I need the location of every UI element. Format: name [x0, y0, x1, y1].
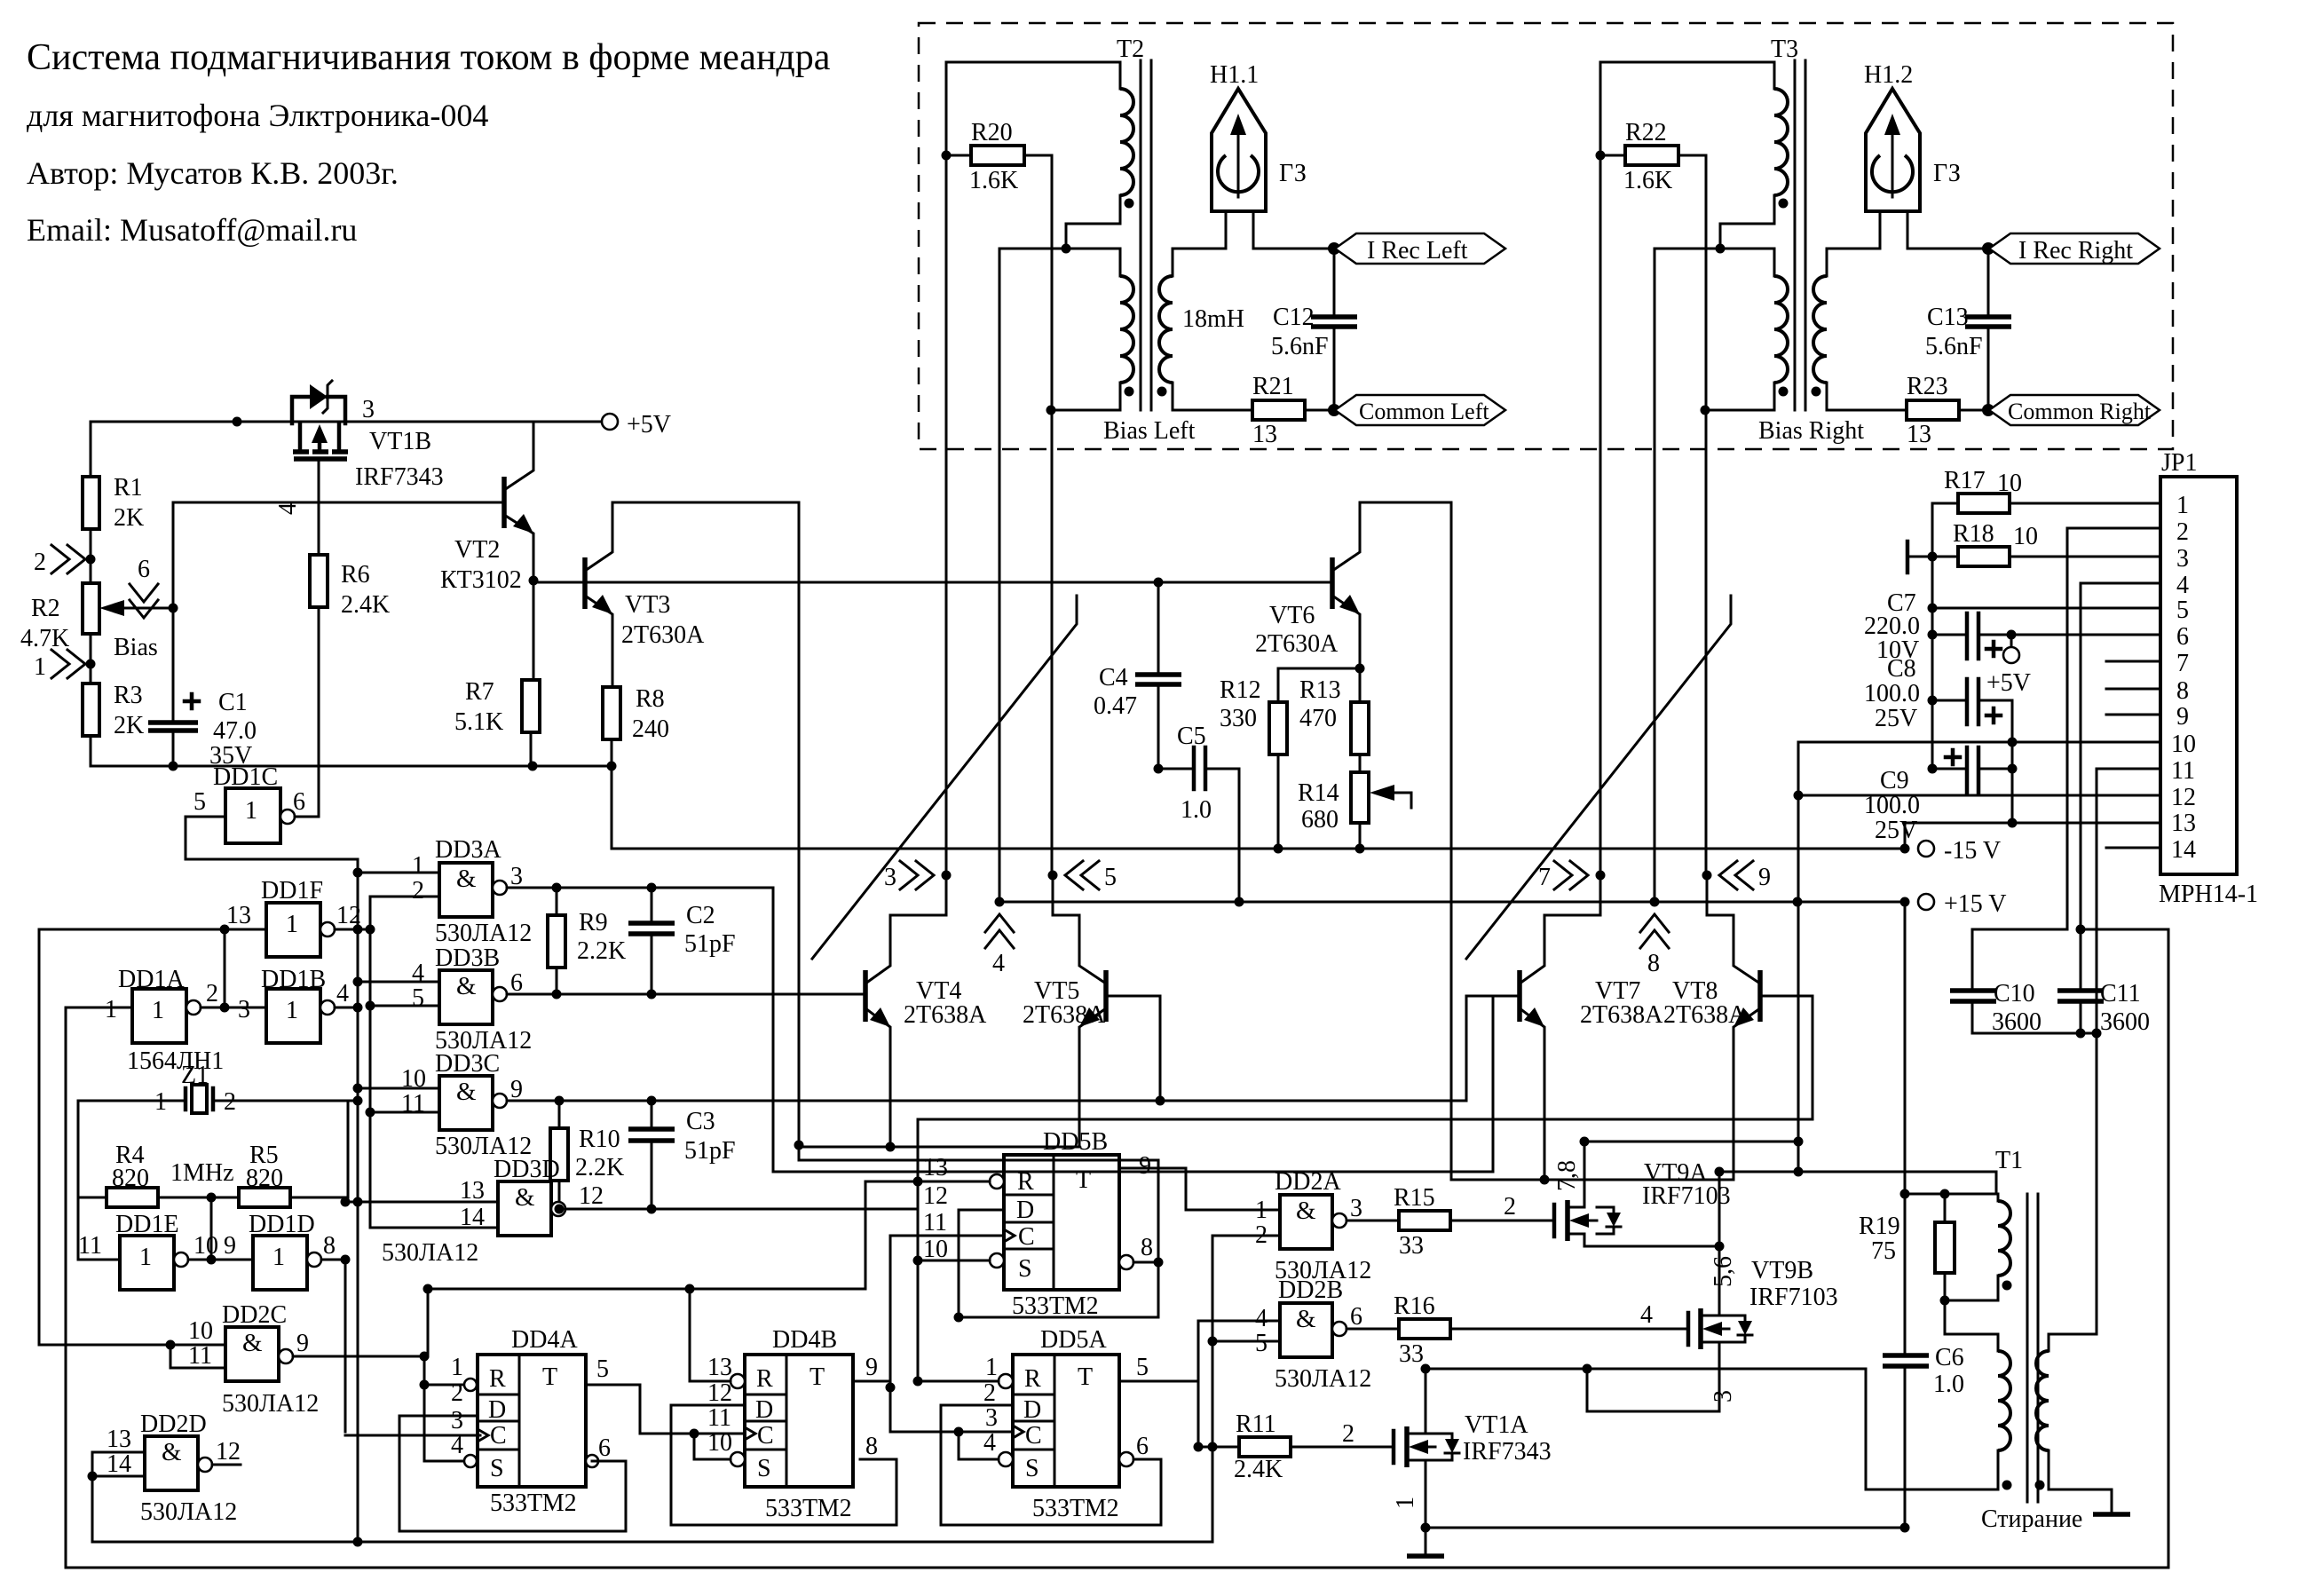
- wire DD4A R input: [424, 1356, 463, 1461]
- transformer T2: [946, 36, 1252, 415]
- capacitor C9 100.0/25V: [1932, 768, 1967, 770]
- svg-text:4: 4: [1255, 1305, 1268, 1332]
- svg-text:7: 7: [1538, 864, 1551, 891]
- svg-text:C12: C12: [1273, 304, 1315, 331]
- svg-text:R9: R9: [579, 909, 608, 936]
- svg-text:1MHz: 1MHz: [170, 1159, 234, 1187]
- svg-text:&: &: [162, 1438, 182, 1466]
- svg-text:1: 1: [412, 852, 424, 880]
- capacitor C12: [1333, 249, 1336, 317]
- flip-flop DD4A 533TM2: [451, 1326, 611, 1517]
- svg-text:IRF7103: IRF7103: [1642, 1182, 1731, 1210]
- svg-text:2.2K: 2.2K: [577, 937, 626, 965]
- svg-text:10: 10: [193, 1232, 218, 1260]
- capacitor C6: [1883, 1353, 1929, 1358]
- svg-text:47.0: 47.0: [213, 717, 257, 745]
- wire T2 drive columns: [945, 62, 948, 875]
- svg-text:DD2C: DD2C: [222, 1301, 287, 1329]
- svg-text:R8: R8: [636, 685, 665, 713]
- svg-text:13: 13: [2171, 810, 2196, 837]
- wire DD4B R input: [690, 1289, 731, 1381]
- svg-text:8: 8: [1647, 950, 1660, 977]
- svg-text:4: 4: [992, 950, 1005, 977]
- wire pin11 down: [2097, 769, 2160, 1334]
- svg-text:3: 3: [2176, 545, 2189, 573]
- svg-text:3: 3: [451, 1407, 463, 1434]
- svg-text:5: 5: [596, 1355, 609, 1383]
- svg-text:ГЗ: ГЗ: [1279, 160, 1307, 187]
- resistor R3: [83, 683, 99, 736]
- svg-text:530ЛА12: 530ЛА12: [435, 920, 532, 947]
- svg-text:25V: 25V: [1875, 817, 1917, 844]
- svg-text:530ЛА12: 530ЛА12: [382, 1239, 478, 1267]
- svg-text:4: 4: [336, 980, 349, 1007]
- svg-text:3: 3: [238, 996, 250, 1023]
- svg-text:S: S: [1025, 1455, 1039, 1482]
- wire DD3B output to VT4 base: [507, 993, 865, 996]
- resistor R10: [550, 1128, 568, 1181]
- head H1.2: [1864, 61, 1988, 249]
- svg-text:5.6nF: 5.6nF: [1271, 333, 1329, 360]
- svg-text:11: 11: [923, 1209, 947, 1237]
- wire DD5A C input: [890, 1431, 1013, 1434]
- svg-text:5: 5: [193, 788, 206, 816]
- flag I Rec Right: [1982, 242, 1994, 255]
- svg-text:R12: R12: [1220, 676, 1261, 704]
- input chevron 1: [51, 650, 85, 678]
- SEC-LOGIC: [39, 836, 2168, 1568]
- svg-text:T3: T3: [1771, 36, 1798, 63]
- wire DD5B C input: [890, 1235, 1004, 1237]
- svg-text:ГЗ: ГЗ: [1933, 160, 1961, 187]
- svg-text:470: 470: [1299, 705, 1337, 732]
- svg-text:12: 12: [2171, 784, 2196, 811]
- transistor VT2 KT3102: [440, 422, 533, 594]
- svg-text:6: 6: [598, 1434, 611, 1462]
- resistor R12: [1278, 668, 1360, 670]
- flag Common Left: [1328, 404, 1340, 416]
- wire DD1A input: [66, 1007, 132, 1009]
- wire pin10: [1798, 741, 2160, 744]
- wire DD4A feedback Q6 to D: [399, 1416, 626, 1531]
- svg-text:9: 9: [224, 1232, 236, 1260]
- svg-text:533ТМ2: 533ТМ2: [765, 1495, 852, 1522]
- wire DD3A inputs: [358, 872, 439, 874]
- wire pin3: [2010, 556, 2160, 558]
- NAND DD3B: [412, 944, 532, 1055]
- wire DD3A output net: [507, 887, 773, 889]
- wire drain link: [1426, 1368, 1866, 1371]
- svg-text:&: &: [1296, 1305, 1316, 1333]
- svg-text:2.2K: 2.2K: [575, 1154, 624, 1181]
- NAND DD3A: [412, 836, 532, 947]
- svg-text:DD1F: DD1F: [261, 877, 323, 905]
- svg-text:9: 9: [1758, 864, 1771, 891]
- wire pin10 branch to T1: [1798, 1172, 1996, 1194]
- svg-text:R20: R20: [971, 119, 1013, 146]
- svg-text:Bias Left: Bias Left: [1103, 417, 1196, 445]
- svg-text:&: &: [456, 972, 477, 1000]
- wire DD2B.5 input: [1212, 1340, 1280, 1343]
- capacitor C11 3600: [2081, 928, 2168, 931]
- wire DD5B S input: [918, 1260, 990, 1262]
- resistor R11: [1198, 1446, 1239, 1449]
- svg-text:C2: C2: [686, 902, 715, 929]
- svg-text:3: 3: [362, 396, 375, 423]
- wire DD5B R input: [865, 1181, 990, 1183]
- wire VT2 emitter to R7: [531, 581, 533, 680]
- NAND DD3D: [382, 1156, 604, 1267]
- svg-text:10: 10: [188, 1317, 213, 1345]
- svg-text:12: 12: [579, 1182, 604, 1210]
- svg-text:8: 8: [1141, 1234, 1153, 1261]
- resistor R5: [239, 1188, 290, 1207]
- svg-text:3: 3: [510, 863, 523, 890]
- wire VT1B gate down to R6: [318, 459, 320, 555]
- svg-text:1.0: 1.0: [1181, 796, 1212, 824]
- resistor R6: [310, 555, 328, 607]
- svg-text:&: &: [456, 865, 477, 893]
- svg-text:R14: R14: [1298, 779, 1339, 807]
- svg-text:3: 3: [884, 864, 896, 891]
- dashed enclosure: [919, 23, 2173, 449]
- svg-text:820: 820: [246, 1165, 283, 1192]
- transistor VT1A IRF7343: [1394, 1369, 1552, 1528]
- svg-text:1: 1: [105, 996, 117, 1023]
- resistor R18: [1958, 547, 2010, 566]
- svg-text:IRF7343: IRF7343: [355, 463, 444, 491]
- wire DD4A Q5 out to DD4B C: [586, 1385, 745, 1434]
- rail +15V: [999, 901, 1905, 904]
- wire DD4B Q9 out: [853, 1381, 890, 1387]
- svg-text:4: 4: [2176, 572, 2189, 599]
- inverter DD1F: [226, 877, 361, 957]
- transformer T1: [1940, 1147, 2113, 1514]
- wire VT1A source / ground: [1421, 1523, 1431, 1533]
- svg-text:0.47: 0.47: [1094, 692, 1137, 720]
- svg-text:C3: C3: [686, 1108, 715, 1135]
- svg-text:C4: C4: [1099, 664, 1128, 691]
- transformer T3: [1600, 36, 1907, 415]
- svg-text:&: &: [1296, 1197, 1316, 1225]
- wire +15V down to C6: [1904, 902, 1907, 1355]
- svg-text:33: 33: [1399, 1340, 1424, 1368]
- resistor R9: [548, 915, 565, 968]
- wire right outer column: [2168, 929, 2170, 1568]
- svg-text:2T630A: 2T630A: [1255, 630, 1339, 658]
- wire crystal feedback loop: [78, 1101, 107, 1197]
- wire T3 drive columns: [1599, 62, 1602, 875]
- svg-text:D: D: [1016, 1197, 1034, 1224]
- svg-text:12: 12: [923, 1182, 948, 1210]
- resistor R8: [603, 687, 620, 739]
- svg-text:10: 10: [707, 1429, 732, 1457]
- wire DD5A R input: [918, 1380, 999, 1383]
- svg-text:5: 5: [412, 984, 424, 1012]
- wire DD4B S input: [694, 1434, 731, 1459]
- terminal bar R18 input: [1906, 541, 1910, 573]
- transistor VT9B IRF7103: [1688, 1257, 1838, 1353]
- svg-text:R16: R16: [1394, 1292, 1435, 1320]
- svg-text:2K: 2K: [114, 504, 144, 532]
- resistor R23: [1907, 400, 1959, 420]
- svg-text:-15 V: -15 V: [1944, 837, 2001, 865]
- wire +5V rail: [91, 421, 603, 423]
- wire DD1F output to bus: [335, 928, 370, 931]
- svg-text:13: 13: [1252, 421, 1277, 448]
- svg-text:2: 2: [206, 980, 218, 1007]
- svg-text:33: 33: [1399, 1232, 1424, 1260]
- wire C10/C11 bottoms: [1972, 1032, 2097, 1035]
- wire T1 primary top feed: [1905, 1193, 1998, 1196]
- svg-text:C: C: [757, 1422, 774, 1450]
- svg-text:КТ3102: КТ3102: [440, 566, 522, 594]
- svg-text:10: 10: [2013, 523, 2038, 550]
- inverter DD1B: [238, 966, 349, 1043]
- svg-text:R19: R19: [1859, 1213, 1900, 1240]
- head H1.1: [1210, 61, 1334, 249]
- SEC-RIGHT: [1715, 449, 2259, 1568]
- NAND DD2C: [188, 1301, 319, 1418]
- wire pin5: [1932, 607, 2160, 610]
- svg-text:9: 9: [865, 1354, 878, 1381]
- svg-text:C: C: [490, 1422, 507, 1450]
- svg-text:6: 6: [1136, 1433, 1149, 1460]
- wire DD1A out to DD1B in: [201, 1007, 266, 1009]
- wire DD5A Q5 out to DD2B: [1119, 1321, 1280, 1381]
- rail lower bus A: [92, 1541, 1212, 1544]
- wire DD3C inputs: [358, 1087, 439, 1090]
- wire wiper column to 4-wire and C1: [172, 502, 175, 723]
- wire VT3 collector run: [612, 502, 1158, 1317]
- svg-text:DD1A: DD1A: [118, 966, 185, 993]
- svg-text:11: 11: [2171, 757, 2195, 785]
- svg-text:+5V: +5V: [627, 411, 671, 439]
- svg-text:DD1C: DD1C: [213, 763, 278, 791]
- svg-text:IRF7103: IRF7103: [1749, 1284, 1838, 1311]
- svg-text:13: 13: [460, 1177, 485, 1205]
- svg-text:9: 9: [2176, 703, 2189, 731]
- wire VT9B source run: [1587, 1353, 1719, 1411]
- wire DD4B D feedback from Q8: [671, 1405, 896, 1525]
- svg-text:R3: R3: [114, 682, 143, 709]
- svg-text:2: 2: [983, 1379, 996, 1407]
- svg-text:MPH14-1: MPH14-1: [2159, 881, 2258, 908]
- svg-text:T2: T2: [1117, 36, 1144, 63]
- svg-text:D: D: [1023, 1396, 1041, 1424]
- capacitor C8 100.0/25V: [1932, 699, 1967, 702]
- svg-text:R1: R1: [114, 474, 143, 502]
- wire DD2A.2 input: [1212, 1235, 1280, 1237]
- svg-text:533ТМ2: 533ТМ2: [1032, 1495, 1119, 1522]
- capacitor C7 220.0/10V: [1932, 634, 1967, 636]
- svg-text:11: 11: [78, 1232, 102, 1260]
- wire pin1: [1932, 502, 1958, 505]
- svg-text:для магнитофона Элктроника-004: для магнитофона Элктроника-004: [27, 98, 488, 133]
- svg-text:2T638A: 2T638A: [1663, 1001, 1747, 1029]
- svg-text:C: C: [1018, 1223, 1035, 1251]
- svg-text:3: 3: [985, 1404, 998, 1432]
- svg-text:DD5B: DD5B: [1043, 1128, 1108, 1156]
- terminal -15V: [1900, 844, 1910, 854]
- +5V terminal: [602, 414, 618, 430]
- svg-text:H1.2: H1.2: [1864, 61, 1913, 89]
- potentiometer R14: [1359, 755, 1362, 772]
- svg-text:R18: R18: [1953, 520, 1994, 548]
- svg-text:5.6nF: 5.6nF: [1925, 333, 1983, 360]
- svg-text:13: 13: [707, 1354, 732, 1381]
- svg-text:R11: R11: [1236, 1410, 1276, 1438]
- svg-text:4: 4: [983, 1429, 996, 1457]
- wire DD4A C input: [345, 1434, 480, 1437]
- TITLEBLOCK: [27, 37, 831, 248]
- svg-text:DD5A: DD5A: [1040, 1326, 1107, 1354]
- svg-text:1: 1: [286, 911, 298, 938]
- svg-text:1.6K: 1.6K: [1623, 167, 1672, 194]
- svg-text:680: 680: [1301, 806, 1339, 834]
- svg-text:Common Left: Common Left: [1359, 399, 1489, 424]
- svg-text:+15 V: +15 V: [1944, 890, 2007, 918]
- svg-text:2T630A: 2T630A: [621, 621, 705, 649]
- NAND DD3C: [401, 1050, 532, 1160]
- svg-text:820: 820: [112, 1165, 149, 1192]
- svg-text:3: 3: [1710, 1390, 1737, 1402]
- ground rail bottom-left: [91, 765, 612, 768]
- resistor R17: [1958, 494, 2010, 513]
- svg-text:H1.1: H1.1: [1210, 61, 1259, 89]
- connector JP1 MPH14-1: [2159, 449, 2258, 908]
- svg-text:533ТМ2: 533ТМ2: [490, 1489, 577, 1517]
- wire DD1B out to bus: [335, 1007, 358, 1009]
- svg-text:C10: C10: [1994, 980, 2035, 1007]
- resistor R21: [1252, 400, 1305, 420]
- svg-text:1: 1: [1392, 1497, 1419, 1509]
- svg-text:6: 6: [1350, 1303, 1362, 1331]
- svg-text:R: R: [489, 1365, 506, 1393]
- svg-text:Bias Right: Bias Right: [1758, 417, 1864, 445]
- svg-text:DD2B: DD2B: [1278, 1276, 1343, 1304]
- wire VT9B source column: [1865, 1369, 1868, 1489]
- svg-text:&: &: [515, 1183, 535, 1212]
- svg-text:R13: R13: [1299, 676, 1341, 704]
- wire DD1F input: [39, 928, 266, 931]
- svg-text:1: 1: [2176, 492, 2189, 519]
- svg-text:13: 13: [1907, 421, 1931, 448]
- capacitor C3: [651, 1101, 653, 1129]
- adjust diagonal left: [812, 596, 1077, 959]
- svg-text:13: 13: [107, 1426, 131, 1453]
- transistor VT5: [1023, 875, 1106, 1147]
- svg-text:10: 10: [2171, 731, 2196, 758]
- svg-text:R6: R6: [341, 561, 370, 589]
- bus column left of caps: [1931, 503, 1934, 769]
- +5V terminal: [2010, 635, 2013, 647]
- wire DD3D output: [565, 1208, 918, 1211]
- bias adjust chevron 6: [130, 584, 158, 618]
- svg-text:C5: C5: [1177, 723, 1206, 750]
- svg-text:75: 75: [1871, 1237, 1896, 1265]
- transistor VT8: [1663, 875, 1760, 1180]
- svg-text:530ЛА12: 530ЛА12: [140, 1498, 237, 1526]
- wire DD3B inputs: [358, 981, 439, 984]
- wire DD2C inputs: [38, 929, 41, 1345]
- svg-text:DD3D: DD3D: [494, 1156, 560, 1183]
- svg-text:8: 8: [2176, 677, 2189, 705]
- svg-text:C9: C9: [1880, 767, 1909, 794]
- svg-text:R22: R22: [1625, 119, 1667, 146]
- svg-text:330: 330: [1220, 705, 1257, 732]
- wire R8 bottom to -15V rail: [611, 739, 613, 849]
- node 9 chevron: [1719, 861, 1753, 889]
- svg-text:14: 14: [2171, 836, 2196, 864]
- bus column DD3A.2 feed: [369, 929, 372, 1228]
- svg-text:2: 2: [412, 877, 424, 905]
- capacitor C4: [1154, 578, 1164, 588]
- svg-text:DD2D: DD2D: [140, 1410, 207, 1438]
- svg-text:10: 10: [1997, 470, 2022, 497]
- svg-text:1: 1: [451, 1354, 463, 1381]
- NAND DD2D: [107, 1410, 241, 1526]
- svg-text:3600: 3600: [2100, 1008, 2150, 1036]
- capacitor C13: [1987, 249, 1990, 317]
- svg-text:530ЛА12: 530ЛА12: [1275, 1365, 1371, 1393]
- svg-text:5: 5: [1255, 1330, 1268, 1357]
- node 5 chevron: [1065, 861, 1099, 889]
- SEC-BOTTOM: [345, 1128, 1905, 1556]
- resistor R7: [522, 680, 540, 732]
- NAND DD2A: [1255, 1168, 1371, 1284]
- node 7 chevron: [1554, 861, 1588, 889]
- SEC-DASHBOX: [919, 23, 2173, 902]
- svg-text:D: D: [488, 1396, 506, 1424]
- svg-text:2: 2: [34, 549, 46, 576]
- wire pin13 / -15V link: [1905, 823, 2160, 849]
- SEC-PAIRS: [799, 502, 1905, 1185]
- wire DD5A S input: [959, 1432, 999, 1459]
- svg-text:8: 8: [865, 1433, 878, 1460]
- inverter DD1D: [224, 1211, 336, 1290]
- svg-text:6: 6: [510, 969, 523, 997]
- svg-text:R10: R10: [579, 1126, 620, 1153]
- svg-text:DD4B: DD4B: [772, 1326, 837, 1354]
- wire DD1C output to R6 column: [295, 816, 319, 818]
- svg-text:14: 14: [107, 1450, 131, 1478]
- svg-text:2: 2: [2176, 518, 2189, 546]
- svg-text:T: T: [542, 1363, 557, 1391]
- svg-text:10: 10: [923, 1236, 948, 1263]
- svg-text:R23: R23: [1907, 373, 1948, 400]
- svg-text:VT1A: VT1A: [1465, 1411, 1528, 1439]
- svg-text:&: &: [456, 1078, 477, 1106]
- wire R6 to DD1C output: [318, 607, 320, 817]
- wire DD1C input loop: [186, 817, 358, 859]
- pin7-9 stubs: [2106, 660, 2160, 663]
- wire VT7 base feed: [1466, 996, 1520, 1101]
- svg-text:11: 11: [188, 1342, 212, 1370]
- svg-text:VT9B: VT9B: [1751, 1257, 1813, 1284]
- bus column from DD1C: [357, 859, 359, 1542]
- wire DD1E input: [78, 1259, 120, 1261]
- inverter DD1C: [193, 763, 305, 843]
- svg-text:VT2: VT2: [454, 536, 500, 564]
- transistor VT7: [1520, 875, 1663, 1180]
- svg-text:9: 9: [510, 1076, 523, 1103]
- wire VT9A source to VT9B drain: [1584, 1245, 1719, 1248]
- svg-text:13: 13: [226, 902, 251, 929]
- svg-text:240: 240: [632, 715, 669, 743]
- svg-text:C11: C11: [2100, 980, 2141, 1007]
- svg-text:1: 1: [152, 997, 164, 1024]
